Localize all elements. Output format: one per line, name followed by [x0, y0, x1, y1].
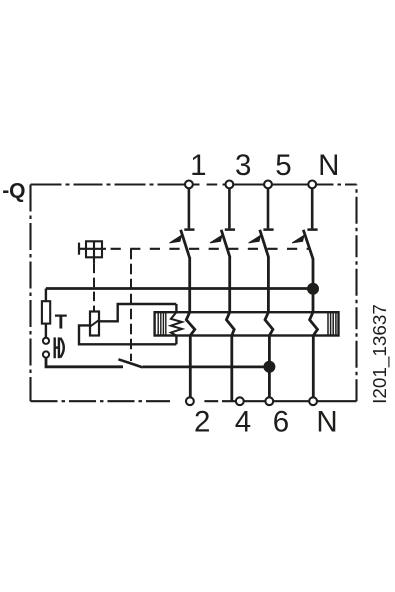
test button contact lower circle [43, 351, 49, 357]
wire: pole N above CT [312, 259, 315, 313]
device boundary bottom edge segment C (solid under terminals 4,6,N to right corner) [222, 400, 357, 402]
svg-text:5: 5 [275, 149, 291, 182]
switch blade pole 1 [181, 230, 190, 258]
wire: resistor to test button [45, 324, 47, 338]
terminal 6 [265, 397, 273, 405]
wire: pole 1 above CT [188, 257, 191, 312]
fixed contact tick pole 2 [225, 228, 235, 231]
switch blade pole N [303, 230, 313, 259]
device boundary top edge segment D (dash-dot to right corner) [312, 183, 357, 185]
wire: button to test line [46, 358, 123, 367]
CT secondary winding hatch (left) [158, 312, 166, 335]
terminal 5 [264, 181, 272, 189]
wire: pole 3 below CT to terminal 6 [268, 336, 271, 401]
pole 3 primary chevron through CT [265, 312, 273, 335]
mechanical coupling dashed line [106, 248, 310, 250]
CT winding hatch (right) [328, 312, 336, 335]
svg-text:6: 6 [273, 406, 289, 439]
junction dot on line 6 [263, 361, 275, 373]
wire: pole 2 below CT [230, 336, 233, 401]
terminal 2 [186, 397, 194, 405]
wire: test tap line to N [46, 287, 313, 290]
blade arrow pole 1 [170, 235, 182, 243]
device boundary right edge (dash-dot) [355, 185, 357, 402]
mechanism symbol left terminal bar [78, 243, 80, 255]
wire: tap down to test resistor [45, 289, 47, 302]
svg-text:-Q: -Q [2, 180, 25, 203]
svg-text:2: 2 [194, 406, 210, 439]
mechanism symbol left tick [79, 248, 86, 250]
mechanism symbol inner horizontal [86, 248, 106, 250]
wire: pole 3 above CT [267, 257, 270, 312]
dashed link: mechanism to trip coil [93, 264, 95, 311]
trip coil K (rect with diagonal) [90, 312, 99, 336]
svg-text:I201_13637: I201_13637 [370, 304, 391, 404]
wire: secondary loop right edge upper [175, 304, 177, 312]
svg-text:N: N [316, 406, 337, 439]
blade arrow pole N [292, 235, 304, 243]
device boundary bottom edge segment B (dash between terminals 2 and 4) [195, 400, 222, 402]
svg-text:T: T [55, 312, 67, 334]
test resistor [42, 301, 50, 323]
terminal 3 [226, 181, 234, 189]
test button actuator bar 1 [54, 337, 56, 358]
wire: secondary loop right edge lower [175, 336, 177, 345]
dashed link: coupling line to trip contact [130, 249, 132, 361]
switch blade pole 3 [260, 230, 269, 258]
svg-text:N: N [318, 149, 339, 182]
test button actuator bar 2 [58, 337, 60, 358]
pole 1 primary chevron through CT [186, 312, 195, 335]
burden resistor zigzag [171, 312, 182, 335]
blade arrow pole 2 [210, 235, 222, 243]
trip contact blade [118, 359, 142, 367]
mechanism symbol inner vertical [93, 241, 95, 263]
terminal 1 [185, 181, 193, 189]
blade arrow pole 3 [249, 235, 261, 243]
mechanism symbol square [86, 241, 102, 257]
wire: pole 1 top stub from terminal 1 [188, 188, 191, 228]
test button actuator arc [60, 338, 64, 358]
device boundary left edge (dash-dot) [29, 185, 31, 402]
wire: pole N top stub from terminal N [311, 188, 314, 228]
wire: pole N below CT to terminal N [312, 336, 315, 402]
wire: pole 1 below CT to terminal 2 [189, 336, 192, 401]
terminal N top [308, 181, 316, 189]
device boundary bottom edge segment A (dash-dot) [31, 400, 171, 402]
trip coil diagonal [90, 320, 100, 327]
test button actuator crossbar [55, 346, 59, 348]
wire: test line to line 6 [143, 365, 270, 368]
pole 2 primary chevron through CT [226, 312, 234, 335]
fixed contact tick pole N [307, 228, 317, 231]
fixed contact tick pole 3 [263, 228, 273, 231]
switch blade pole 2 [221, 230, 230, 258]
svg-text:4: 4 [235, 406, 251, 439]
svg-text:1: 1 [190, 149, 206, 182]
pole N primary chevron through CT [310, 312, 318, 335]
junction dot on N line [307, 283, 319, 295]
wire: coil right lead to secondary loop top [99, 304, 176, 321]
svg-text:3: 3 [235, 149, 251, 182]
device boundary top edge segment C (solid between terminals 3,5,N) [229, 183, 312, 185]
terminal N bottom [309, 397, 317, 405]
wire: pole 3 top stub from terminal 5 [267, 188, 270, 228]
terminal 4 [236, 397, 244, 405]
fixed contact tick pole 1 [184, 228, 194, 231]
current transformer core band [155, 312, 339, 335]
device boundary top edge segment A (dash-dot) [31, 183, 185, 185]
wire: pole 2 top stub from terminal 3 [228, 188, 231, 228]
test button contact upper circle [43, 338, 49, 344]
wire: pole 2 above CT [228, 257, 231, 312]
wire: coil left lead to secondary loop bottom [79, 325, 176, 344]
device boundary top edge segment B (dashes between terminals 1 and 3) [194, 183, 230, 185]
